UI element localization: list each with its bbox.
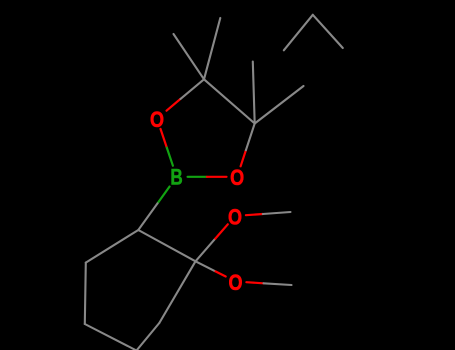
svg-text:O: O	[228, 206, 242, 230]
svg-text:O: O	[228, 271, 242, 295]
svg-text:O: O	[150, 108, 164, 132]
svg-text:O: O	[230, 167, 244, 191]
svg-text:B: B	[170, 166, 182, 191]
